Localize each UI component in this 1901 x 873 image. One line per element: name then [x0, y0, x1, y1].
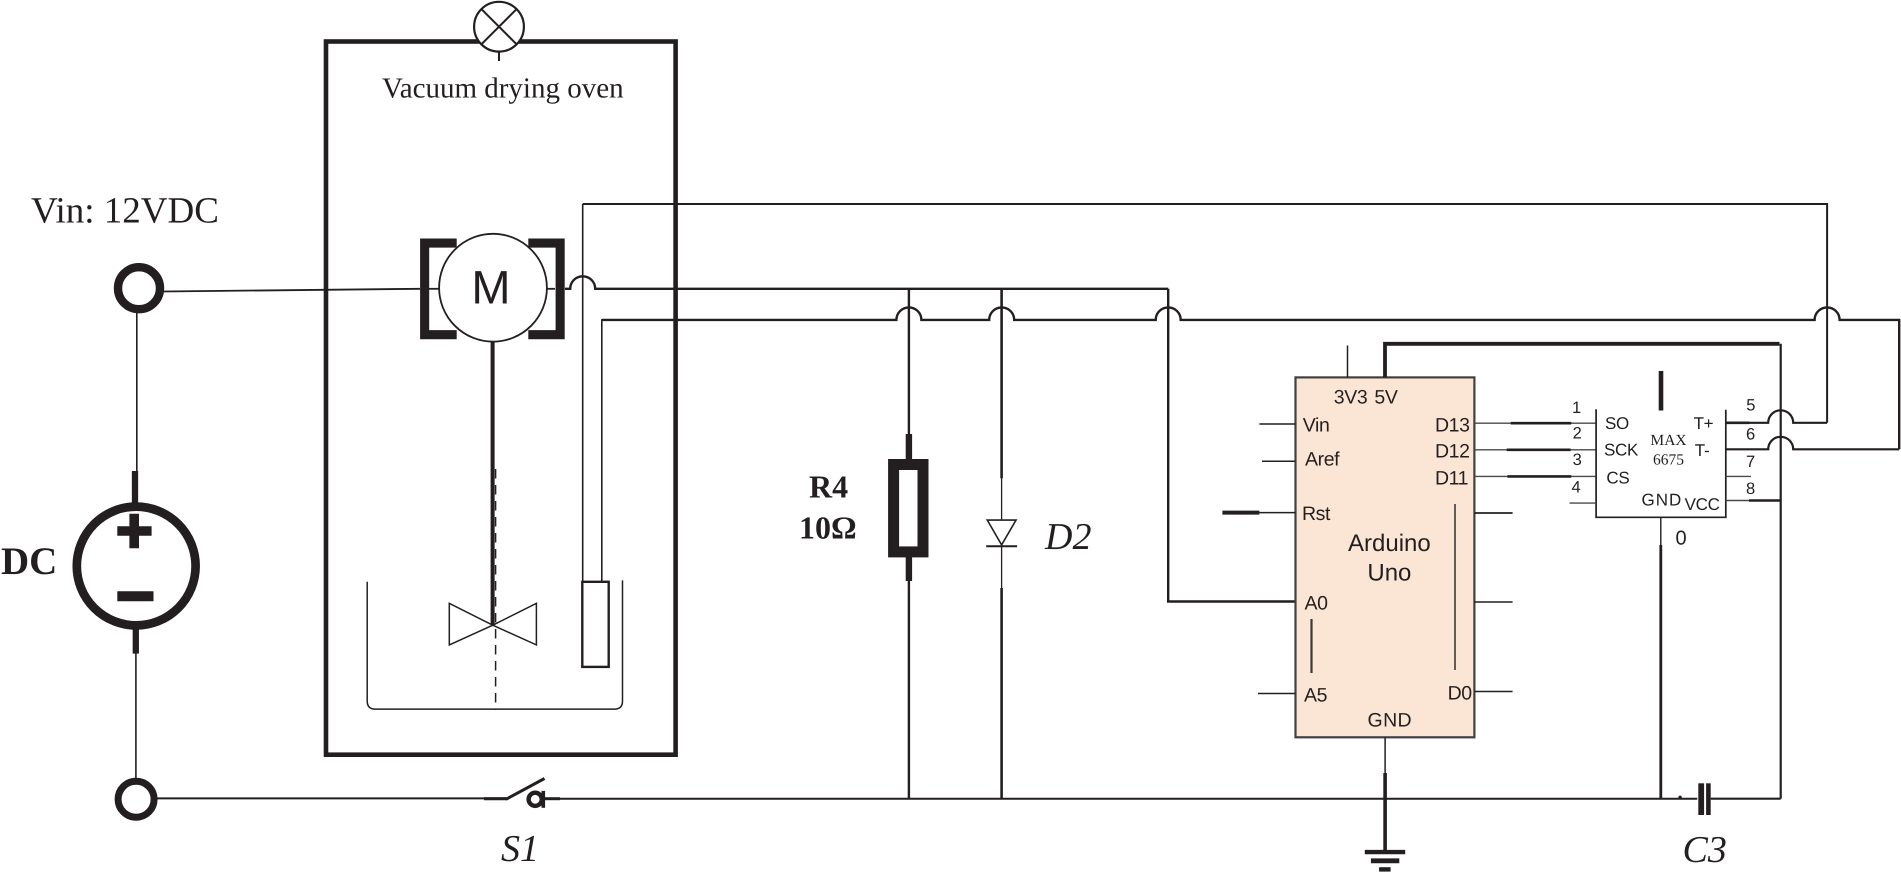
svg-text:3: 3 [1573, 451, 1582, 469]
MAX6675 U2 box (no top edge) [1596, 409, 1726, 517]
wire terminal+ to DC source [136, 312, 138, 474]
motor M (stirrer motor) left bracket [420, 239, 457, 340]
wire C3 to VCC drop corner [1711, 798, 1781, 800]
svg-text:Vin: Vin [1303, 415, 1330, 437]
wire D11 to MAX CS [1474, 475, 1596, 477]
VCC drop wire [1780, 344, 1782, 799]
svg-text:6675: 6675 [1653, 452, 1684, 469]
pin numbers [1572, 396, 1756, 498]
svg-text:5V: 5V [1374, 387, 1397, 409]
switch S1 contact [529, 793, 542, 806]
ground symbol [1365, 850, 1405, 854]
rail A: probe-left to MAX6675 T+ [583, 204, 1827, 423]
capacitor C3 [1698, 783, 1704, 815]
MAX GND wire down to ground rail [1660, 517, 1662, 547]
svg-text:CS: CS [1606, 468, 1629, 487]
motor shaft [491, 342, 495, 626]
svg-text:Uno: Uno [1367, 560, 1411, 587]
svg-text:A0: A0 [1305, 593, 1329, 615]
Arduino Uno U1 [1296, 377, 1475, 737]
Rst pin stub [1259, 512, 1295, 514]
ground rail: terminal- to S1 [156, 797, 484, 799]
probe right wire (to rail B / T-) [601, 320, 603, 582]
svg-text:1: 1 [1572, 399, 1581, 417]
A0..A5 separator line [1310, 619, 1312, 673]
T+ wire to rail A drop (hop over VCC drop) [1726, 410, 1827, 423]
shaft dashed centerline [495, 469, 497, 710]
svg-text:5: 5 [1746, 396, 1755, 414]
svg-text:8: 8 [1746, 480, 1755, 498]
svg-text:SCK: SCK [1604, 441, 1639, 460]
svg-text:D11: D11 [1435, 468, 1468, 490]
DC voltage source V1 [77, 471, 196, 654]
svg-text:Aref: Aref [1305, 449, 1340, 471]
switch S1 blade [506, 779, 545, 800]
Vin pin stub [1259, 423, 1295, 425]
svg-text:0: 0 [1676, 528, 1687, 550]
svg-text:M: M [471, 260, 510, 313]
Arduino GND wire [1384, 737, 1386, 775]
svg-text:Arduino: Arduino [1348, 530, 1431, 557]
D11..D0 separator line [1454, 504, 1456, 670]
motor M circle [439, 234, 547, 342]
svg-text:A5: A5 [1304, 684, 1328, 706]
pin 8 VCC wire [1726, 500, 1781, 502]
wire motor node down to D2 [1000, 289, 1003, 479]
wire D12 to MAX SCK [1474, 449, 1596, 451]
A5 pin stub [1258, 693, 1296, 695]
terminal (-) circle [118, 781, 154, 817]
pin 7 stub [1726, 475, 1751, 477]
T- wire to rail B drop (hop over VCC drop) [1726, 437, 1899, 450]
svg-text:Rst: Rst [1302, 503, 1331, 525]
thermocouple probe body [582, 582, 608, 667]
5V wire: Arduino 5V up and right to VCC drop [1385, 344, 1780, 378]
svg-text:SO: SO [1605, 414, 1629, 433]
right unlabeled stub (D1) [1474, 601, 1512, 603]
wire terminal+ to motor (with hop over probe wire) [163, 289, 420, 292]
svg-text:GND: GND [1642, 491, 1683, 510]
thermocouple mark above MAX6675 [1659, 371, 1664, 411]
D0 pin stub [1474, 691, 1512, 693]
svg-text:4: 4 [1572, 479, 1581, 497]
motor M right bracket [528, 239, 564, 340]
vacuum drying oven enclosure box [326, 42, 676, 755]
svg-text:6: 6 [1746, 426, 1755, 444]
svg-text:T-: T- [1695, 441, 1710, 460]
svg-text:S1: S1 [501, 828, 539, 870]
pin 4 stub [1570, 502, 1597, 504]
wire motor node to Arduino A0 [1168, 289, 1295, 602]
svg-text:C3: C3 [1683, 829, 1727, 871]
rail B: probe-right to MAX6675 T- (hops over R4, D2, A0 wire, T+ drop) [602, 307, 1899, 449]
svg-text:Vacuum drying oven: Vacuum drying oven [382, 73, 624, 105]
svg-text:GND: GND [1368, 710, 1413, 732]
svg-text:MAX: MAX [1650, 432, 1686, 449]
svg-text:D13: D13 [1435, 415, 1470, 437]
ground rail: S1 to C3 [545, 797, 560, 800]
svg-text:Vin: 12VDC: Vin: 12VDC [31, 191, 219, 232]
beaker/vessel [367, 580, 622, 709]
svg-text:7: 7 [1746, 453, 1755, 471]
junction dot on ground rail [1678, 796, 1681, 799]
lamp (oven heater indicator) [474, 2, 524, 61]
wire R4 to ground rail [908, 579, 910, 799]
wire motor node down to R4 [908, 289, 910, 438]
probe left wire (to rail A / T+) [582, 204, 584, 582]
svg-text:D2: D2 [1044, 516, 1091, 558]
svg-text:10Ω: 10Ω [799, 510, 857, 546]
right unlabeled stub (D10) [1474, 512, 1512, 514]
MAX6675 pin labels [1604, 414, 1720, 514]
Arduino pin labels [1302, 387, 1472, 732]
3V3 pin stub [1347, 346, 1349, 378]
svg-text:T+: T+ [1694, 414, 1714, 433]
svg-text:VCC: VCC [1685, 495, 1720, 514]
svg-text:DC: DC [1, 540, 57, 583]
wire D13 to MAX SO [1474, 422, 1596, 424]
svg-text:D12: D12 [1435, 441, 1470, 463]
wire DC source to terminal- [135, 652, 137, 781]
svg-text:D0: D0 [1448, 682, 1473, 704]
wire D2 to ground rail [1001, 546, 1003, 590]
Aref pin stub [1262, 460, 1296, 462]
svg-text:R4: R4 [809, 469, 848, 505]
diode D2 (flyback) [987, 520, 1016, 545]
svg-text:2: 2 [1573, 425, 1582, 443]
stirrer impeller (bowtie) [449, 603, 536, 645]
resistor R4 [906, 434, 912, 463]
terminal (+) circle [118, 267, 160, 309]
svg-text:3V3: 3V3 [1334, 387, 1368, 409]
